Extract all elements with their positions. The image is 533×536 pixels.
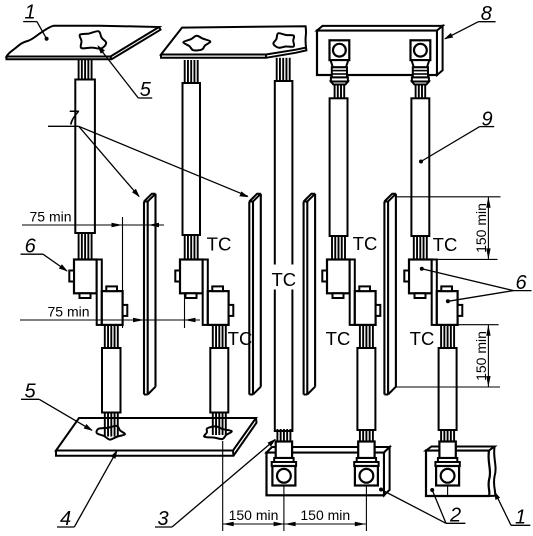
plate 4 (bottom support plate)	[56, 418, 256, 451]
rod D lower ribbed	[359, 325, 361, 348]
svg-text:150 min: 150 min	[300, 507, 350, 523]
plate 1 (top-left, torn edge)	[7, 26, 160, 57]
base block 2 (right) top face	[426, 447, 495, 451]
svg-text:TC: TC	[433, 234, 458, 255]
reference line L2 (clamp top)	[430, 258, 498, 260]
specimen bar A upper	[75, 80, 95, 234]
bar E lower	[439, 348, 457, 430]
specimen bar A lower	[102, 348, 121, 413]
tie rod 9 (right) upper bar	[411, 98, 429, 236]
channel bracket 8 top face	[317, 26, 443, 31]
rod B bottom ribbed into blob	[212, 413, 214, 436]
dimension 150 min bottom arrows	[223, 522, 234, 526]
bottom eye connector E	[440, 429, 442, 442]
adhesive blob 5 at plate 4 right	[204, 426, 232, 439]
free plate 7 (board 1)	[143, 202, 145, 395]
clamps 6 pair column A	[74, 260, 97, 294]
dimension 75 min lower arrows	[133, 318, 144, 322]
specimen bar C (long)	[275, 81, 293, 431]
dimension 150 min right-upper arrows	[486, 197, 490, 208]
dimension 75 min upper line	[22, 224, 164, 226]
channel bracket 8 front face	[317, 31, 437, 76]
base block 2 (left) front face	[267, 453, 385, 496]
svg-text:TC: TC	[353, 233, 378, 254]
white gap for TC label on bar C	[272, 265, 297, 290]
dimension 75 min upper arrows	[112, 223, 123, 227]
reference line L1 (board top)	[396, 196, 501, 198]
dimension 150 min bottom line	[223, 523, 366, 525]
adhesive blob 5 on middle plate right	[273, 33, 294, 48]
rod B top ribbed	[184, 60, 186, 83]
reference line L3 (clamp bottom)	[458, 324, 499, 326]
svg-text:TC: TC	[410, 328, 435, 349]
plate 4 thickness edges	[56, 418, 257, 456]
rod A mid ribbed	[78, 233, 80, 260]
rod A bottom ribbed into blob	[104, 413, 106, 437]
rod E mid ribbed	[413, 236, 415, 260]
svg-text:75 min: 75 min	[47, 304, 89, 320]
rod B mid ribbed	[184, 235, 186, 260]
free plate 7 (board 2)	[248, 202, 250, 395]
rod E lower ribbed	[440, 325, 442, 348]
adhesive blob 5 on middle plate left	[183, 36, 210, 51]
plate top-middle thickness edges	[161, 48, 306, 58]
svg-text:150 min: 150 min	[473, 331, 489, 381]
clamps 6 pair column E	[409, 260, 432, 294]
tie rod 9 (left) upper bar	[330, 98, 348, 236]
plate 1 (top-middle, torn right edge)	[161, 26, 306, 54]
free plate 7 (board 4)	[383, 202, 385, 395]
channel bracket 8 right face	[437, 26, 443, 75]
free plate 7 (board 3)	[303, 202, 305, 395]
hanger eye under channel (left, for tie 9 D)	[330, 40, 350, 60]
bottom eye connector D	[359, 429, 361, 442]
base block 2 (right) front face on plate 1	[426, 451, 490, 497]
clamps 6 pair column B	[180, 260, 203, 294]
plate 1 thickness edges	[7, 27, 161, 59]
plate 1 (bottom-right) torn edge	[494, 447, 496, 496]
rod A top ribbed (threaded)	[78, 59, 80, 79]
adhesive blob 5 at plate 4 left	[97, 426, 126, 440]
svg-text:150 min: 150 min	[229, 507, 279, 523]
svg-text:TC: TC	[228, 328, 253, 349]
rod A lower ribbed	[104, 325, 106, 348]
dimension 150 min right-lower line	[487, 325, 489, 387]
reference line L4 (board bottom)	[396, 386, 500, 388]
hanger eye under channel (right, for tie 9 E)	[411, 40, 431, 60]
dimension 75 min lower line	[20, 319, 200, 321]
bottom eye connector C	[276, 429, 278, 442]
base block 2 (left) top face	[267, 447, 390, 453]
rod B lower ribbed	[212, 325, 214, 348]
svg-text:TC: TC	[326, 328, 351, 349]
dimension 150 min right-lower arrows	[486, 325, 490, 336]
adhesive blob 5 on plate 1	[80, 31, 107, 49]
extension line at clamp B nub	[184, 293, 186, 328]
svg-text:1: 1	[24, 2, 35, 24]
svg-text:TC: TC	[207, 234, 232, 255]
dimension 150 min right-upper line	[487, 197, 489, 260]
specimen bar B upper	[183, 83, 201, 235]
extension line below plate 4	[222, 441, 224, 531]
extension line at clamp A right edge	[122, 217, 124, 328]
rod D mid ribbed	[331, 236, 333, 260]
bar D lower	[357, 348, 375, 430]
svg-text:75 min: 75 min	[29, 209, 71, 225]
svg-text:150 min: 150 min	[473, 203, 489, 253]
rod C top ribbed	[276, 58, 278, 81]
specimen bar B lower	[210, 348, 228, 413]
svg-text:TC: TC	[271, 269, 296, 290]
clamps 6 pair column D	[327, 260, 350, 294]
base block 2 (left) right face	[384, 447, 390, 495]
